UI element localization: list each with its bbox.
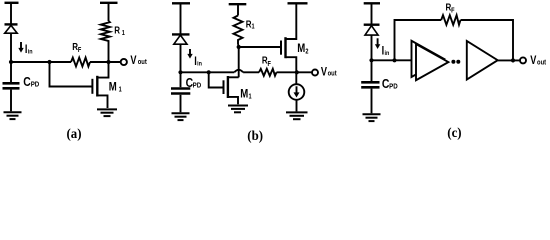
- dots between stages (c): [451, 60, 455, 64]
- node gate tap (a): [47, 60, 51, 64]
- ground (M1 b): [228, 106, 248, 113]
- current arrow Iin (a): [18, 42, 23, 53]
- wire hop over drain (b): [234, 70, 243, 73]
- resistor R1 (b): [234, 4, 243, 47]
- wire to RF (b): [243, 71, 259, 73]
- label CPD (b): [186, 76, 202, 90]
- wire feedback top to output (c): [461, 20, 514, 60]
- resistor RF (c): [441, 15, 460, 25]
- label Iin (a): [25, 44, 33, 56]
- resistor RF (a): [71, 58, 90, 67]
- label RF (a): [72, 41, 81, 54]
- wire gate feed M2 (b): [239, 46, 281, 48]
- svg-text:1: 1: [252, 23, 256, 31]
- svg-text:PD: PD: [389, 83, 398, 91]
- node output (c): [511, 58, 515, 62]
- ground (current source b): [286, 112, 308, 119]
- svg-text:F: F: [268, 60, 272, 68]
- svg-text:out: out: [537, 59, 547, 67]
- supply bar (photodiode b): [172, 2, 190, 4]
- ground (CPD c): [363, 114, 381, 121]
- photodiode D (b): [172, 34, 190, 44]
- transistor M2 (b): [281, 3, 296, 72]
- svg-text:M: M: [240, 87, 248, 100]
- label R1 (b): [246, 19, 255, 31]
- label Vout (b): [321, 66, 337, 78]
- node input (c): [369, 58, 373, 62]
- svg-text:V: V: [530, 55, 536, 67]
- svg-text:F: F: [78, 46, 82, 54]
- svg-text:M: M: [109, 80, 117, 93]
- svg-text:(a): (a): [67, 126, 82, 142]
- wire: [371, 35, 373, 60]
- terminal Vout (c): [520, 57, 526, 63]
- wire output (c): [498, 59, 520, 61]
- current arrow Iin (b): [187, 49, 192, 59]
- supply bar (R1 b): [229, 3, 247, 5]
- label CPD (a): [23, 75, 39, 89]
- label RF (b): [262, 55, 271, 68]
- svg-text:out: out: [328, 70, 338, 78]
- svg-text:in: in: [28, 48, 33, 56]
- terminal Vout (a): [121, 59, 127, 65]
- label Iin (c): [382, 45, 390, 57]
- supply bar (photodiode a): [5, 2, 19, 4]
- svg-text:out: out: [138, 59, 148, 67]
- svg-text:PD: PD: [193, 82, 202, 90]
- label Iin (b): [194, 56, 202, 68]
- svg-text:M: M: [297, 42, 305, 55]
- ground (CPD a): [4, 112, 22, 119]
- capacitor CPD (c): [361, 60, 379, 113]
- svg-text:in: in: [385, 49, 390, 57]
- terminal Vout (b): [312, 70, 318, 76]
- svg-text:PD: PD: [31, 81, 40, 89]
- svg-text:in: in: [197, 60, 202, 68]
- supply bar (R1 a): [100, 2, 118, 4]
- label M2 (b): [297, 42, 309, 56]
- node input (a): [9, 60, 13, 64]
- svg-text:V: V: [130, 55, 136, 67]
- amplifier stage 1 front (c): [416, 44, 448, 80]
- svg-text:(b): (b): [247, 127, 263, 143]
- label M1 (b): [240, 87, 252, 100]
- node gate tap (b): [207, 70, 211, 74]
- ground (CPD b): [172, 113, 190, 120]
- label Vout (a): [130, 55, 147, 67]
- node output (b): [295, 70, 299, 74]
- svg-text:R: R: [114, 25, 120, 36]
- label M1 (a): [109, 80, 122, 93]
- wire input (b): [181, 71, 235, 73]
- label Vout (c): [530, 55, 546, 67]
- svg-text:(c): (c): [447, 125, 461, 141]
- svg-text:2: 2: [305, 48, 309, 56]
- svg-text:1: 1: [119, 86, 123, 94]
- wire: [10, 33, 12, 62]
- photodiode D (a): [5, 24, 18, 33]
- wire: [180, 44, 182, 72]
- label R1 (a): [114, 25, 125, 37]
- current source (b): [289, 72, 305, 111]
- node output (a): [106, 60, 110, 64]
- transistor M1 (b): [224, 47, 239, 104]
- svg-text:F: F: [451, 7, 455, 15]
- node input (b): [178, 70, 182, 74]
- node drain/R1 (b): [237, 45, 241, 49]
- wire input (c): [372, 59, 412, 61]
- ground (M1 a): [97, 109, 117, 116]
- amplifier stage 1 rear (c): [412, 41, 445, 77]
- svg-text:1: 1: [122, 29, 126, 37]
- node feedback tap (c): [392, 58, 396, 62]
- resistor RF (b): [259, 69, 277, 76]
- supply bar (M2 b): [288, 2, 308, 4]
- current arrow Iin (c): [375, 38, 380, 49]
- wire gate feed M1 (a): [50, 62, 93, 87]
- label RF (c): [446, 2, 455, 15]
- svg-text:1: 1: [249, 93, 253, 101]
- wire: [371, 3, 373, 24]
- wire RF to node (a): [90, 61, 121, 63]
- transistor M1 (a): [92, 62, 108, 108]
- wire gate feed M1 (b): [209, 72, 223, 87]
- capacitor CPD (b): [171, 72, 190, 112]
- amplifier stage 2 (c): [467, 41, 498, 80]
- capacitor CPD (a): [3, 62, 20, 111]
- photodiode D (c): [364, 25, 380, 35]
- wire: [10, 3, 12, 24]
- wire RF to out node (b): [277, 71, 313, 73]
- wire feedback up (c): [395, 20, 442, 60]
- resistor R1 (a): [101, 3, 110, 62]
- label CPD (c): [382, 77, 398, 91]
- svg-text:V: V: [321, 66, 327, 78]
- wire: [180, 3, 182, 34]
- wire input (a): [11, 61, 71, 63]
- supply bar (photodiode c): [364, 2, 380, 4]
